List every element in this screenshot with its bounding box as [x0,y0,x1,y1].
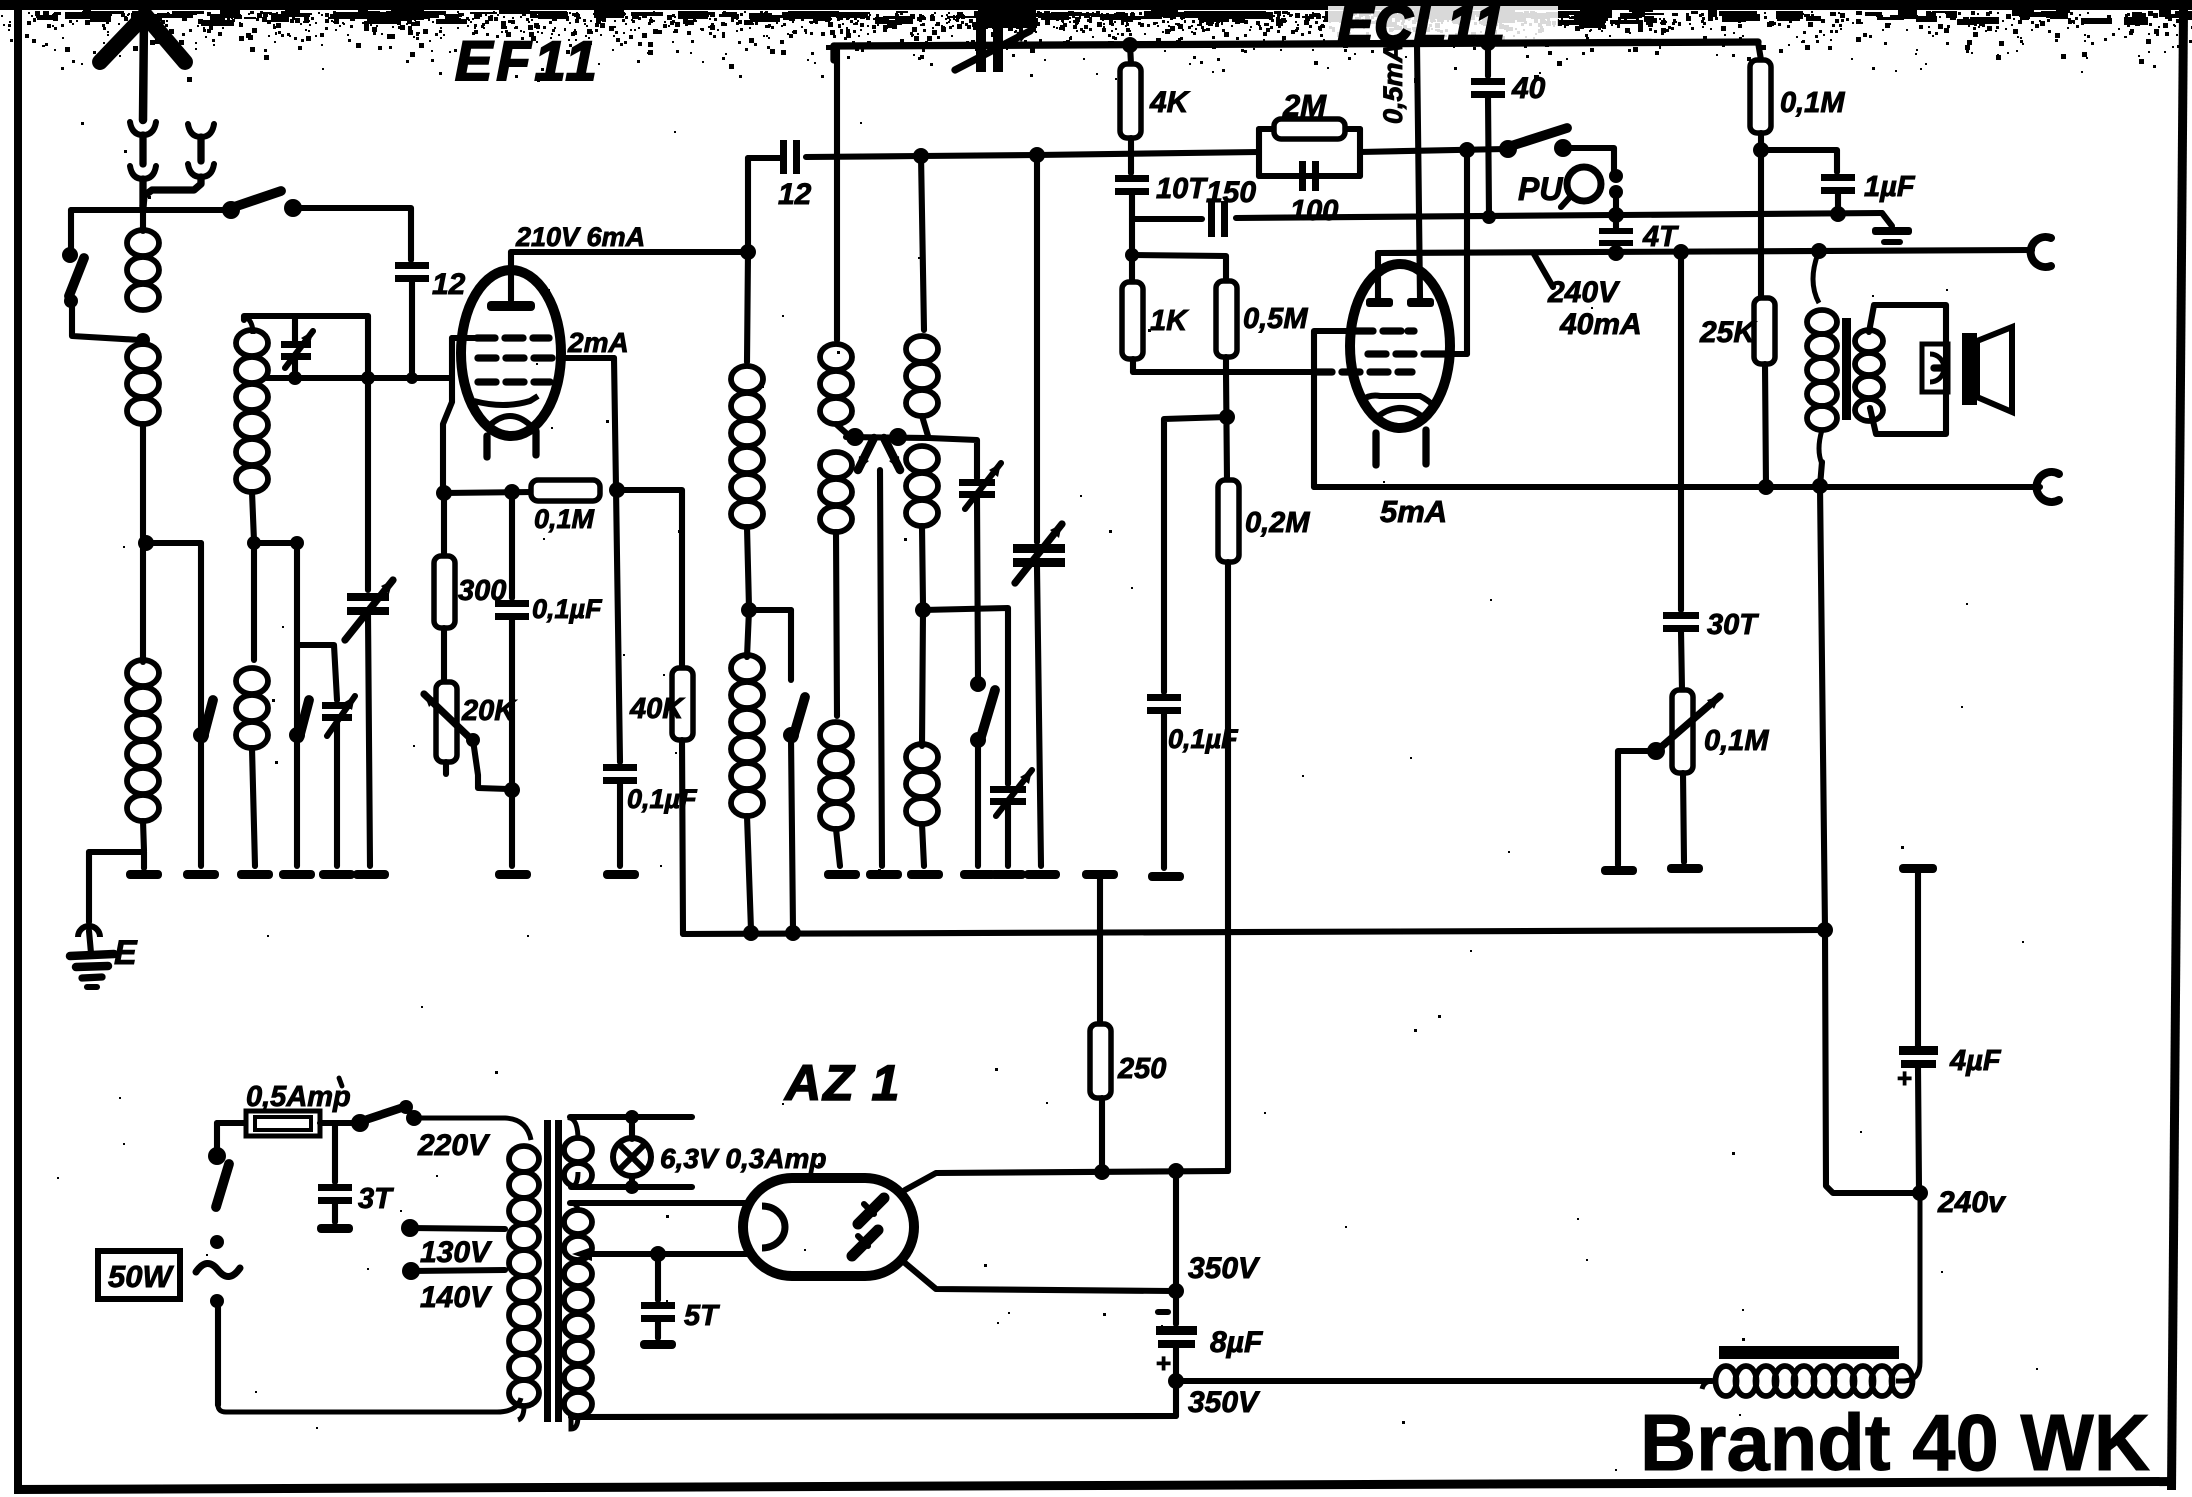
node L2 bottom junctions [247,536,261,550]
output transformer core [1842,318,1851,420]
AZ1 anode plates [858,1198,884,1224]
capacitor 40 [1485,43,1491,76]
node cathode cap top [504,484,520,500]
node trimmer to tap line [292,360,298,378]
ECL11 grid row 3 [1314,368,1332,375]
wire HV centre tap [572,1247,592,1261]
wire 8µF column [1173,1171,1179,1288]
svg-text:250: 250 [1117,1053,1166,1085]
node H6 switch [785,925,801,941]
wire to earth terminal E [86,852,92,922]
switch S3 band column [198,543,204,732]
wire tap to switch S5 [749,607,791,613]
svg-text:0,5mA: 0,5mA [1378,43,1408,124]
wire 10T down [1129,194,1135,282]
node H3 PU jack [1608,207,1624,223]
wire capacitor 12a to grid line [409,282,415,378]
capacitor 12 (antenna coupling) [395,262,429,269]
node H6 coil [743,925,759,941]
svg-text:100: 100 [1290,195,1338,227]
EF11 grid row 2 [478,354,496,361]
svg-text:Brandt 40 WK: Brandt 40 WK [1640,1398,2150,1487]
trimmer capacitor C-osc1 [959,479,995,486]
node osc tank [915,602,931,618]
label 50W box [98,1251,180,1299]
heater winding 6,3V [564,1138,592,1162]
resistor 25K [1754,298,1775,364]
wire 0,2M down to AZ1 node [1225,562,1231,1171]
wire antenna switch line [71,207,228,213]
potentiometer 20K [436,682,457,762]
svg-text:50W: 50W [108,1259,174,1294]
node 5T tap [650,1246,666,1262]
svg-text:30T: 30T [1707,609,1759,641]
wire coil bottom to earth branch [89,849,144,855]
potentiometer 0,1M volume [1672,690,1693,773]
ECL11 grid row 2 [1368,350,1386,357]
wire H4 to output transformer [1813,251,1819,303]
AZ1 cathode arc [762,1206,785,1248]
wire heater bottom [571,1184,692,1190]
wire coupling line H2 [748,155,780,161]
svg-text:5T: 5T [684,1300,720,1332]
capacitor 3T [332,1123,338,1182]
oscillator coil L5 lower [922,610,923,746]
node H2 tuning [1029,147,1045,163]
wire anode to IF1 [745,158,751,250]
svg-text:25K: 25K [1699,316,1757,349]
wire H2 to osc secondary [921,155,924,330]
svg-text:4T: 4T [1642,221,1679,253]
svg-text:0,2M: 0,2M [1245,507,1310,539]
border frame left edge [14,8,22,1490]
antenna coil L1 middle section [127,344,159,370]
switch S4 RF coil [294,543,300,732]
wire 240V down to choke [1896,1193,1920,1381]
capacitor 100 [1299,161,1306,191]
wire 300 to 20K [441,628,447,682]
wire padder branch [297,645,337,700]
antenna coil L1 upper section [140,207,146,231]
svg-text:40K: 40K [629,693,685,725]
oscillator tap line [846,437,929,438]
wire tank to padder column [923,608,1008,784]
capacitor 8µF [1158,1309,1168,1315]
svg-text:12: 12 [432,268,466,301]
node IF1 tap [741,602,757,618]
svg-text:4µF: 4µF [1949,1045,2002,1077]
wire bus to 0,1M [1758,42,1761,60]
oscillator coil L4 upper [820,344,852,370]
svg-text:0,1M: 0,1M [1780,87,1845,119]
ECL11 heater pins [1372,433,1379,465]
column tuning cap C-ant [365,316,371,378]
switch S5 [783,727,799,743]
resistor 250 feed [1082,870,1118,879]
hook terminal H4 [2031,237,2051,267]
svg-text:130V: 130V [420,1236,493,1269]
node band-switch tap [138,535,154,551]
capacitor 5T [655,1254,661,1300]
svg-text:350V: 350V [1188,1386,1261,1419]
wire grid-leak line [444,492,531,493]
wire HV top to AZ1 [570,1200,746,1206]
resistor 2M [1256,129,1262,176]
IF coil L3 secondary [747,610,749,657]
tube EF11 envelope [461,270,561,436]
wire to antenna coil tap [72,303,140,340]
resistor 40K [672,668,693,740]
AZ1 output wires [905,1171,1228,1190]
capacitor 12 coupling [780,140,787,174]
tuning capacitor C-main [1034,155,1040,542]
RF coil L2 lower loops [236,412,268,438]
wire PU switch to jack [1563,148,1614,172]
switch S7 PU [1499,140,1517,158]
HV secondary winding [564,1210,592,1234]
speaker driver box [1922,344,1948,392]
node H4 30T [1673,244,1689,260]
svg-text:+: + [1156,1348,1171,1378]
svg-text:20K: 20K [461,695,517,727]
speaker cone [1977,327,2012,412]
EF11 heater pins [483,436,490,457]
wire L2 tap to EF11 grid [266,375,452,381]
oscillator coil L5 middle [906,446,938,472]
svg-text:0,1µF: 0,1µF [627,784,698,814]
tube ECL11 envelope [1350,264,1450,428]
svg-text:AZ 1: AZ 1 [783,1055,901,1111]
node bus 4K [1122,37,1138,53]
svg-text:240V: 240V [1547,276,1621,309]
fuse 0,5Amp [246,1111,320,1136]
ground pad antenna coil [141,852,147,868]
capacitor 0,1µF (screen) [616,488,620,762]
resistor 0,1M (top right) [1750,60,1771,133]
volume pot arrow [1660,696,1720,748]
wire pentode grid line H3 [1132,216,1202,222]
svg-text:220V: 220V [417,1129,491,1162]
svg-text:0,5M: 0,5M [1243,303,1308,335]
tap 140V [402,1262,420,1280]
wire 350V line to choke [1176,1378,1712,1384]
IF coil L3 primary [731,366,763,392]
wire output line H4 [1378,250,2032,253]
svg-text:1K: 1K [1150,305,1189,337]
capacitor 0,1µF (cathode) [509,492,515,598]
switch S1 antenna [222,201,240,219]
wire 40K to return bus [682,740,683,934]
svg-text:6,3V 0,3Amp: 6,3V 0,3Amp [660,1143,827,1174]
node H3 1µF [1830,206,1846,222]
pickup PU connector [1567,167,1601,201]
choke winding [1716,1366,1737,1396]
node 0,5M to 0,2M [1219,409,1235,425]
wire return bus H6 [683,930,1825,934]
svg-text:10T: 10T [1156,173,1208,205]
ECL11 triode anode [1366,298,1393,307]
switch S2 earth branch [62,247,78,263]
resistor 0,1M (EF11 grid) [531,480,600,501]
node 240V [1912,1185,1928,1201]
wire mains bottom [218,1398,521,1412]
antenna plug connector right [188,124,214,137]
wire cathode line H5 [1314,484,2040,490]
wire transformer column down [1820,486,1825,930]
wire to 0,5M top [1132,255,1226,281]
resistor 4K [1120,64,1141,138]
node H5 25K [1758,479,1774,495]
svg-text:240v: 240v [1937,1186,2007,1219]
wire to primary top [414,1118,531,1140]
speaker magnet bar [1962,333,1977,405]
tap 130V [401,1219,419,1237]
oscillator coil L4 middle [820,452,852,478]
node L2 column junction [361,371,375,385]
svg-text:2M: 2M [1282,88,1327,123]
wire 210V anode feed [511,249,748,255]
wire 25K to H5 [1765,364,1766,487]
RF coil L2 ground section [236,668,268,694]
resistor 0,5M [1216,281,1237,357]
hook terminal H5 [2037,472,2059,502]
ECL11 grid/cathode bracket [1314,331,1352,487]
output transformer secondary [1855,330,1883,352]
wire cathode line ECL11 [1130,359,1136,372]
svg-text:0,1µF: 0,1µF [532,594,603,624]
volume pot bottom [1683,773,1684,862]
capacitor 1µF [1761,150,1837,172]
ECL11 cathode [1362,396,1434,407]
RF coil L2 upper section [244,316,253,334]
svg-text:8µF: 8µF [1210,1326,1263,1359]
svg-text:4K: 4K [1149,86,1191,119]
wire switch to capacitor 12a [293,208,411,260]
capacitor 150 [1208,201,1215,237]
switch S8 mains selector [320,1120,356,1126]
node H5 transformer [1812,478,1828,494]
antenna coil L1 lower section [140,543,146,662]
svg-text:1µF: 1µF [1864,171,1916,203]
svg-text:40mA: 40mA [1559,308,1642,341]
20K wiper arrow [424,694,470,738]
svg-text:40: 40 [1511,72,1546,105]
border frame right edge [2167,10,2188,1490]
svg-text:0,1M: 0,1M [1704,725,1769,757]
node 0,1M right [609,482,625,498]
antenna symbol [100,15,185,62]
svg-text:2mA: 2mA [567,327,629,358]
earth ground symbol [89,931,91,953]
wire 4K to 10T [1128,138,1134,173]
ECL11 grid row 1 [1355,327,1373,334]
oscillator coil L4 lower [820,722,852,748]
border frame bottom edge [14,1477,2176,1494]
wire L1 to band tap [140,424,146,543]
volume wiper wire [1647,742,1665,760]
wire 0,1M junction down to 25K [1758,150,1764,298]
wire heater top [570,1114,692,1120]
svg-text:3T: 3T [358,1183,394,1215]
svg-text:PU: PU [1518,171,1563,207]
node H2 osc [913,148,929,164]
wire EF11 screen/anode 2mA [561,355,614,361]
wire tapline to trimmer C-osc1 [929,438,977,478]
EF11 grid row 1 [477,334,495,341]
node 0,1M bottom [1758,133,1764,150]
node 350V bottom [1168,1373,1184,1389]
wire 0,5mA pentode anode [1417,44,1420,298]
capacitor 30T [1678,253,1684,610]
pilot lamp 6,3V 0,3Amp [625,1110,639,1124]
node 350V top [1094,1164,1110,1180]
output transformer primary [1807,310,1837,334]
svg-text:350V: 350V [1188,1252,1261,1285]
wire mains fuse left [217,1120,246,1126]
switch S6 oscillator [970,676,986,692]
svg-text:0,1M: 0,1M [534,504,595,534]
node 1K top tee [1125,248,1139,262]
svg-text:210V 6mA: 210V 6mA [515,222,645,252]
20K wiper wire [466,733,480,747]
svg-text:0,5Amp: 0,5Amp [246,1081,351,1113]
wire tap to switch column [146,540,201,546]
core adjust arrows [858,438,874,470]
capacitor 4µF [1899,864,1937,873]
capacitor 4T [1613,215,1619,228]
EF11 grid cap bracket [452,335,478,341]
node bus cap40 [1480,35,1496,51]
wire 2M to PU switch [1360,149,1505,152]
oscillator coil L5 upper [906,336,938,362]
wire L2 top bracket [244,316,368,320]
trimmer capacitor C-pad [322,702,352,709]
wire HV bottom [571,1416,1176,1417]
tube label ECL11 [1328,6,1558,46]
svg-text:140V: 140V [420,1281,493,1314]
ECL11 pentode anode [1407,298,1434,307]
resistor 0,2M [1218,480,1239,562]
switch S9 mains [214,1123,220,1150]
svg-text:5mA: 5mA [1380,494,1447,529]
choke core bar [1719,1346,1899,1359]
power transformer primary [509,1146,539,1172]
wire L2 bottom column [251,543,257,660]
wire top bus H1 [834,42,1758,46]
node grid-leak left [436,485,452,501]
EF11 cathode [474,396,538,405]
antenna plug connector left [130,122,156,135]
node H4 output transformer [1811,243,1827,259]
svg-text:12: 12 [778,178,812,211]
EF11 grid row 3 [478,378,496,385]
svg-text:+: + [1897,1063,1912,1093]
svg-text:150: 150 [1206,176,1256,209]
svg-text:EF11: EF11 [455,29,601,92]
trimmer capacitor on bus [976,12,986,72]
tube AZ1 envelope [743,1178,914,1276]
power transformer core [544,1120,551,1422]
scan noise band at top [0,0,2192,10]
wire to 0,1µF [1164,417,1227,692]
PU jack terminals [1609,169,1623,183]
wire to 40K [617,490,682,668]
EF11 anode plate [487,301,535,311]
chassis ground H3 end [1882,213,1892,226]
capacitor 0,1µF (ECL11) [1147,694,1181,701]
trimmer capacitor C-osc2 [990,786,1026,793]
wire top bus to osc coil [834,46,840,340]
wire grid2 ECL11 [1459,142,1475,158]
wire left branch down [68,210,74,250]
earth hook [78,926,100,937]
capacitor 10T [1115,175,1149,182]
wire bus to 4K [1130,45,1131,64]
resistor 300 (cathode) [441,493,447,556]
resistor 1K [1122,282,1143,359]
trimmer capacitor C-L2 [292,316,298,341]
